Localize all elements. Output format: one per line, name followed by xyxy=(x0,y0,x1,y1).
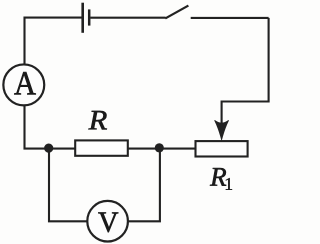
wire switch to top-right corner xyxy=(191,17,269,19)
junction dot right xyxy=(155,143,164,152)
junction dot left xyxy=(44,144,53,153)
svg-text:R: R xyxy=(88,105,108,136)
voltmeter U2 circle xyxy=(87,201,128,242)
ammeter U1 circle xyxy=(3,64,44,105)
rheostat wiper arrowhead xyxy=(215,120,229,140)
svg-text:1: 1 xyxy=(224,174,233,194)
wire voltmeter loop right xyxy=(127,149,160,222)
battery short plate (right) xyxy=(88,9,91,25)
svg-text:V: V xyxy=(98,207,119,239)
resistor R box xyxy=(75,140,128,155)
wire battery to switch xyxy=(90,17,165,19)
wire right vertical down xyxy=(222,18,269,102)
wire voltmeter loop left xyxy=(49,149,88,222)
wire top-left corner to battery xyxy=(25,18,82,64)
rheostat R1 box xyxy=(196,141,248,156)
rheostat wiper shaft wire xyxy=(221,101,223,127)
switch blade S xyxy=(165,6,188,19)
wire resistor to rheostat xyxy=(127,148,196,150)
battery long plate (left) xyxy=(81,3,84,33)
wire ammeter to middle node xyxy=(25,105,77,149)
svg-text:A: A xyxy=(14,65,37,102)
